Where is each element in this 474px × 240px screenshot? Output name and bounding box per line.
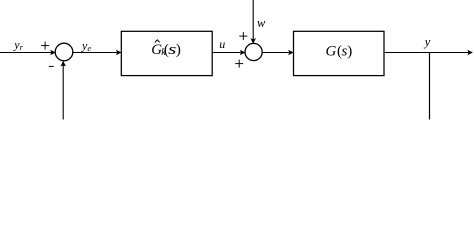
- block controller Ghat_k(s): [121, 31, 212, 75]
- label Ghat_k(s): [151, 40, 181, 58]
- svg-text:): ): [347, 44, 352, 60]
- summing junction S1: [55, 43, 73, 61]
- svg-text:y: y: [423, 35, 431, 49]
- minus sign sum1: [49, 65, 54, 67]
- wire output: [384, 52, 468, 54]
- plus sign sum2 lower: [235, 60, 243, 68]
- wire feedback branch right vertical: [429, 53, 431, 120]
- wire feedback vertical left: [62, 65, 64, 119]
- wire block1 to S2, label u: [212, 52, 240, 54]
- svg-text:): ): [176, 42, 181, 58]
- block plant G(s): [294, 31, 385, 75]
- summing junction S2: [245, 43, 262, 60]
- wire S2 to block2: [262, 52, 289, 54]
- svg-text:u: u: [219, 37, 225, 51]
- svg-text:w: w: [257, 16, 266, 30]
- wire w input vertical: [252, 0, 254, 39]
- svg-text:G: G: [326, 44, 337, 60]
- label G(s): [326, 44, 353, 60]
- plus sign sum2 upper: [239, 32, 247, 40]
- wire yr input: [0, 52, 51, 54]
- wire S1 to block1: [73, 52, 117, 54]
- plus sign sum1: [41, 42, 49, 50]
